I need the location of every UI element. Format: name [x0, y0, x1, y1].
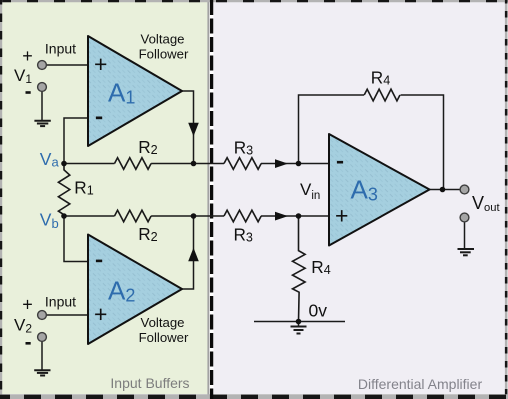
svg-text:Follower: Follower	[139, 330, 189, 345]
junction dot noninverting input / R4	[296, 213, 302, 219]
label V2 - polarity	[26, 342, 31, 345]
resistor R4 to 0v (vertical)	[293, 216, 306, 322]
current direction arrow on A1 output wire (down)	[188, 123, 199, 136]
terminal V1 -	[38, 83, 47, 92]
resistor R1 between Va and Vb	[58, 164, 69, 217]
op-amp A2 body	[88, 235, 182, 345]
resistor R4 feedback (top)	[364, 89, 400, 101]
wire feedback R4 right side down to output node	[401, 95, 444, 190]
wire V1 - terminal to ground	[41, 91, 43, 120]
wire feedback R4 loop from inverting node to A3 output	[299, 95, 365, 164]
svg-text:Input: Input	[45, 294, 76, 310]
signal arrow after upper R3 (right)	[275, 159, 288, 168]
wire upper R3 to A3 inverting input	[261, 163, 329, 165]
resistor R2 lower (Vb line)	[115, 210, 152, 222]
wire node Vb to lower R2	[64, 215, 115, 217]
label V1 - polarity	[26, 91, 31, 94]
node Vb junction dot	[61, 213, 67, 219]
ground symbol below Vout return	[458, 249, 475, 255]
terminal V1 +	[38, 61, 47, 70]
op-amp A3 body	[329, 134, 430, 246]
wire V2 - terminal to ground	[41, 341, 43, 370]
svg-text:Differential Amplifier: Differential Amplifier	[358, 376, 483, 392]
wire node Va to R2	[64, 163, 115, 165]
wire R2 to R3 across divider (node at A1 output junction)	[151, 163, 224, 165]
wire lower R3 to A3 noninverting input	[261, 215, 329, 217]
op-amp A1 body	[88, 36, 182, 146]
wire A1 output down to Va line junction	[182, 91, 194, 164]
resistor R3 lower	[224, 210, 261, 222]
svg-text:Voltage: Voltage	[141, 315, 185, 330]
terminal V2 -	[38, 333, 47, 342]
junction dot 0v rail	[296, 319, 302, 325]
junction dot A1 output on Va line	[191, 161, 197, 167]
signal arrow after lower R3 (right)	[275, 212, 288, 221]
ground symbol below V2	[34, 370, 50, 375]
wire A3 output to Vout terminal	[430, 189, 461, 191]
svg-text:+: +	[94, 301, 107, 327]
resistor R3 upper	[224, 158, 261, 170]
svg-text:+: +	[22, 46, 33, 66]
terminal Vout	[460, 185, 469, 194]
svg-text:0v: 0v	[309, 301, 328, 321]
svg-text:+: +	[22, 295, 33, 315]
junction dot A2 output on Vb line	[191, 213, 197, 219]
svg-text:Input Buffers: Input Buffers	[110, 375, 189, 391]
junction dot A3 output node	[440, 187, 446, 193]
wire A2 inverting input feedback to node Vb	[64, 216, 88, 262]
svg-text:+: +	[94, 51, 107, 77]
wire Vout lower terminal to ground	[464, 222, 466, 248]
wire 0v junction to ground	[298, 322, 300, 327]
svg-text:Follower: Follower	[139, 47, 189, 62]
terminal V2 +	[38, 311, 47, 320]
resistor R2 upper (Va line)	[115, 158, 152, 170]
ground symbol below V1	[34, 121, 50, 126]
ground symbol at 0v rail	[291, 327, 307, 334]
op-amp A2 - input pin label	[96, 260, 102, 263]
wire 0v rail	[254, 321, 345, 323]
wire V2 + terminal to A2 noninverting input	[46, 314, 88, 316]
wire lower R2 to lower R3 across divider (node at A2 output junction)	[151, 215, 224, 217]
wire A1 inverting input feedback to node Va	[64, 118, 88, 164]
svg-text:Input: Input	[45, 41, 76, 57]
terminal Vout return	[460, 213, 469, 222]
wire A2 output up to Vb line junction	[182, 216, 194, 289]
node Va junction dot	[61, 161, 67, 167]
svg-text:Voltage: Voltage	[141, 32, 185, 47]
op-amp A1 - input pin label	[96, 117, 102, 120]
current direction arrow on A2 output wire (up)	[188, 248, 199, 261]
junction dot inverting input / R4 feedback	[296, 161, 302, 167]
op-amp A3 - input pin label	[337, 161, 343, 164]
svg-text:+: +	[335, 203, 348, 229]
wire V1 + terminal to A1 noninverting input	[46, 64, 88, 66]
